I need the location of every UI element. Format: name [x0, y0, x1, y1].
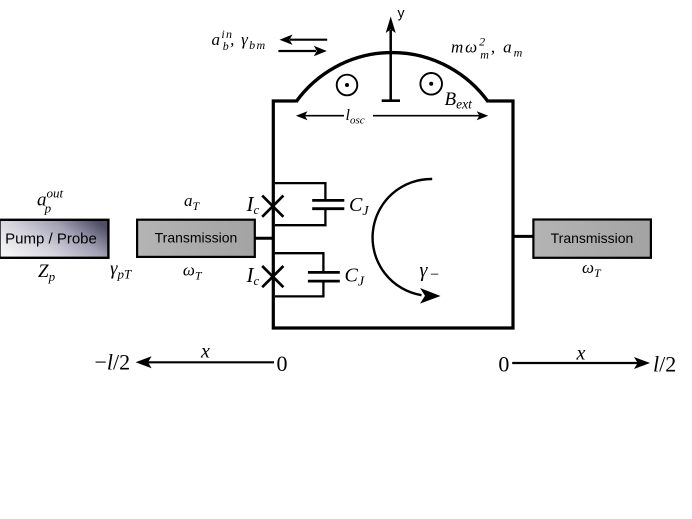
- svg-text:x: x: [200, 341, 210, 363]
- pump/probe box: [0, 220, 108, 258]
- svg-text:l/2: l/2: [653, 352, 676, 377]
- flux symbol left (field out of page): [337, 75, 358, 96]
- svg-text:Zp: Zp: [38, 261, 56, 284]
- svg-text:Ic: Ic: [246, 263, 260, 288]
- svg-text:y: y: [398, 5, 405, 21]
- svg-text:CJ: CJ: [345, 265, 365, 290]
- wire: cavity wall to transmission right: [513, 235, 533, 238]
- cavity box outline: [273, 101, 513, 328]
- y axis arrow: [382, 5, 405, 102]
- svg-text:0: 0: [277, 351, 288, 376]
- capacitor CJ1 loop wires: [275, 182, 327, 226]
- svg-text:−l/2: −l/2: [95, 349, 131, 374]
- circulation arrow gamma_minus: [373, 179, 441, 304]
- svg-text:aoutp: aoutp: [37, 185, 64, 215]
- mechanical oscillator dome: [296, 53, 488, 102]
- svg-text:x: x: [576, 343, 586, 365]
- svg-text:Pump / Probe: Pump / Probe: [5, 231, 97, 248]
- svg-text:ωT: ωT: [582, 258, 602, 280]
- svg-text:Ic: Ic: [246, 192, 260, 217]
- svg-text:γpT: γpT: [110, 259, 132, 282]
- mechanical output arrow (right): [278, 46, 326, 56]
- x axis left: [95, 341, 288, 377]
- flux symbol right (field out of page): [420, 73, 442, 95]
- capacitor CJ2 loop wires: [275, 252, 325, 297]
- svg-text:Transmission: Transmission: [551, 230, 634, 246]
- svg-text:mω2m, am: mω2m, am: [451, 35, 524, 62]
- mechanical input arrow (left): [280, 35, 328, 45]
- svg-text:γ−: γ−: [420, 260, 440, 284]
- svg-text:ωT: ωT: [183, 261, 203, 283]
- josephson junction J1 (cross): [262, 196, 283, 217]
- svg-text:ainb, γbm: ainb, γbm: [212, 27, 267, 53]
- capacitor CJ1 plates: [312, 200, 344, 208]
- transmission box right: [533, 220, 651, 258]
- l_osc double arrow: [296, 107, 488, 127]
- x axis right: [498, 343, 676, 377]
- svg-text:aT: aT: [184, 191, 201, 213]
- josephson junction J2 (cross): [262, 266, 283, 287]
- svg-text:Transmission: Transmission: [155, 230, 238, 246]
- svg-text:losc: losc: [346, 107, 365, 127]
- capacitor CJ2 plates: [308, 272, 340, 281]
- svg-text:0: 0: [498, 352, 509, 377]
- transmission box left: [137, 220, 255, 257]
- svg-text:CJ: CJ: [349, 194, 369, 219]
- svg-text:Bext: Bext: [445, 89, 474, 112]
- wire: transmission left to cavity wall: [255, 237, 273, 240]
